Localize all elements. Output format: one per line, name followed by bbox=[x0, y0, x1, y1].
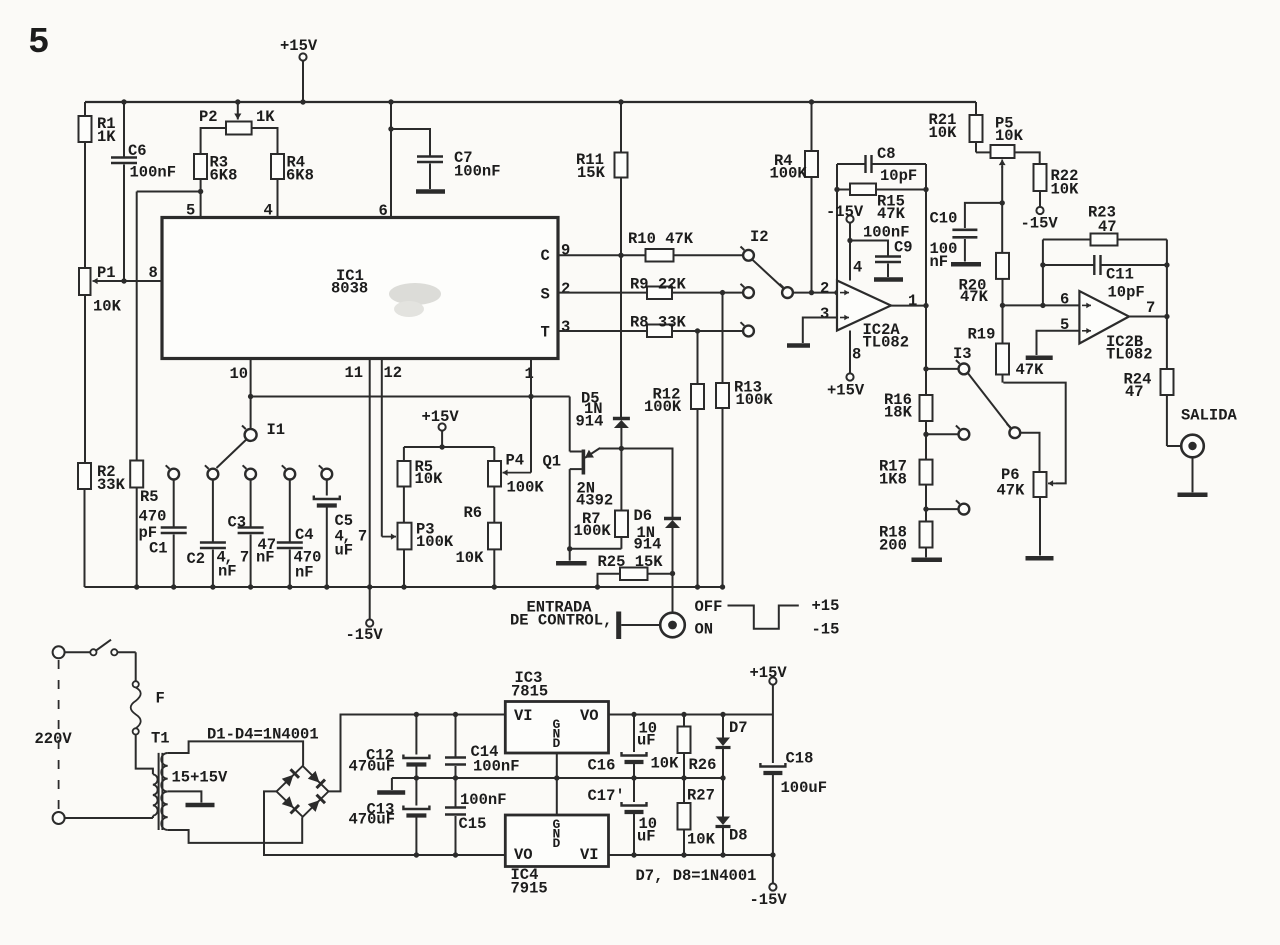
junction C12 bottom bbox=[414, 775, 419, 780]
pin label 6 IC2B bbox=[1060, 291, 1069, 309]
resistor R10 bbox=[646, 249, 674, 262]
wire zero rail bbox=[392, 777, 723, 779]
bridge diode D3 bbox=[282, 796, 299, 813]
svg-text:914: 914 bbox=[576, 413, 604, 431]
wire pin2 row bbox=[558, 292, 647, 294]
svg-text:C17': C17' bbox=[588, 787, 625, 805]
transformer T1 secondary bbox=[161, 753, 167, 830]
+15V terminal PSU bbox=[769, 677, 776, 714]
junction Q1 drain node bbox=[619, 446, 624, 451]
resistor R8 bbox=[647, 325, 672, 338]
svg-text:C11: C11 bbox=[1106, 266, 1134, 284]
svg-text:-15: -15 bbox=[812, 621, 840, 639]
pin label 7 IC2B bbox=[1146, 299, 1155, 317]
junction R27 bottom bbox=[681, 852, 686, 857]
resistor R3 bbox=[194, 154, 207, 217]
svg-text:I2: I2 bbox=[750, 228, 769, 246]
switch I1 contact 4 bbox=[282, 465, 295, 479]
svg-text:47: 47 bbox=[1098, 218, 1117, 236]
junction C10 tap bbox=[1000, 200, 1005, 205]
svg-text:F: F bbox=[156, 690, 165, 708]
svg-text:470uF: 470uF bbox=[349, 758, 396, 776]
wire center tap bbox=[168, 791, 202, 802]
wire secondary bottom bbox=[168, 817, 303, 843]
label R1 1K bbox=[97, 115, 116, 146]
svg-text:D: D bbox=[553, 836, 561, 851]
diode D5 bbox=[613, 418, 630, 449]
op-amp IC2B bbox=[1079, 291, 1129, 344]
IC IC1 8038 box bbox=[162, 218, 558, 359]
wire IC4 gnd bbox=[556, 778, 558, 815]
svg-text:nF: nF bbox=[295, 564, 314, 582]
junction C14 top bbox=[453, 712, 458, 717]
svg-text:C2: C2 bbox=[187, 550, 206, 568]
svg-text:1K: 1K bbox=[97, 128, 116, 146]
wire mains bottom bbox=[65, 816, 153, 818]
resistor R4 timing bbox=[271, 154, 284, 217]
wire IC2B output bbox=[1129, 316, 1167, 318]
svg-text:I1: I1 bbox=[267, 421, 286, 439]
junction C16 bottom bbox=[631, 775, 636, 780]
wire drain to D6 bbox=[621, 449, 672, 518]
junction fb2 left C11 bbox=[1040, 262, 1045, 267]
label D8 bbox=[729, 827, 748, 845]
label C6 100nF bbox=[128, 142, 176, 182]
resistor R26 bbox=[678, 715, 691, 779]
input connector ENTRADA bbox=[619, 612, 685, 640]
label SALIDA bbox=[1181, 407, 1238, 425]
resistor R7 bbox=[615, 449, 628, 549]
diode D8 bbox=[716, 778, 731, 855]
capacitor C7 bbox=[391, 129, 443, 189]
svg-text:100K: 100K bbox=[574, 522, 612, 540]
resistor R9 bbox=[647, 287, 672, 300]
label ENTRADA DE CONTROL bbox=[510, 599, 612, 630]
wire P4 wiper drop bbox=[503, 397, 532, 476]
svg-text:11: 11 bbox=[345, 364, 364, 382]
label VI IC3 bbox=[514, 707, 533, 725]
svg-text:100K: 100K bbox=[507, 479, 545, 497]
junction P2 wiper on bus bbox=[235, 99, 240, 104]
junction rail C4 bbox=[287, 584, 292, 589]
transistor Q1 bbox=[570, 397, 622, 549]
ground C10 bbox=[951, 262, 981, 267]
capacitor C5 bbox=[314, 480, 340, 588]
capacitor C8 bbox=[837, 155, 926, 173]
label GND IC4 bbox=[553, 817, 561, 851]
resistor R16 bbox=[920, 395, 933, 434]
junction fb left pin2 bbox=[834, 290, 839, 295]
junction fb2 right C11 bbox=[1164, 262, 1169, 267]
label VO IC4 bbox=[514, 846, 533, 864]
junction R4b on bus bbox=[809, 99, 814, 104]
label R20 47K bbox=[959, 277, 989, 307]
switch I3 contact bottom bbox=[956, 500, 969, 514]
junction C13 bottom bbox=[414, 852, 419, 857]
label -15V PSU bbox=[750, 891, 788, 909]
svg-text:R6: R6 bbox=[464, 504, 483, 522]
label R9 22K bbox=[630, 276, 687, 294]
label Q1 2N4392 bbox=[543, 453, 614, 510]
ground R18 bbox=[911, 558, 942, 563]
svg-text:R5: R5 bbox=[140, 488, 159, 506]
capacitor C4 bbox=[277, 480, 303, 588]
capacitor C17 bbox=[622, 778, 647, 855]
pin label 5 bbox=[186, 202, 195, 220]
resistor R15 bbox=[837, 184, 926, 196]
ground C9 bbox=[874, 277, 903, 282]
resistor R5 10K bbox=[398, 447, 411, 523]
svg-text:nF: nF bbox=[256, 549, 275, 567]
svg-text:100K: 100K bbox=[770, 165, 808, 183]
junction C6 on bus bbox=[121, 99, 126, 104]
label R16 18K bbox=[884, 391, 913, 422]
resistor R6 bbox=[488, 523, 501, 587]
label R18 200 bbox=[879, 524, 907, 555]
label C12 470uF bbox=[349, 747, 396, 776]
resistor R19 bbox=[996, 344, 1009, 383]
junction C12 top bbox=[414, 712, 419, 717]
ground IC2B pin5 bbox=[1026, 356, 1053, 361]
svg-text:C9: C9 bbox=[894, 239, 913, 257]
svg-text:S: S bbox=[541, 286, 550, 304]
svg-text:VO: VO bbox=[580, 707, 599, 725]
junction rail C1 bbox=[171, 584, 176, 589]
svg-text:10K: 10K bbox=[415, 470, 444, 488]
svg-text:5: 5 bbox=[28, 22, 50, 63]
svg-text:OFF: OFF bbox=[695, 598, 723, 616]
junction rail R12 bbox=[695, 584, 700, 589]
label C4 470nF bbox=[294, 526, 322, 582]
svg-text:+15: +15 bbox=[812, 597, 840, 615]
junction R26 bottom bbox=[681, 775, 686, 780]
junction rail R6 bbox=[492, 584, 497, 589]
junction R26 top bbox=[681, 712, 686, 717]
svg-text:470uF: 470uF bbox=[349, 811, 396, 829]
fuse F bbox=[131, 681, 153, 774]
mains switch bbox=[65, 640, 136, 682]
svg-text:47K: 47K bbox=[960, 288, 989, 306]
label D7 D8 1N4001 bbox=[636, 867, 757, 885]
wire SALIDA to ground bbox=[1192, 457, 1194, 492]
svg-text:6: 6 bbox=[1060, 291, 1069, 309]
svg-text:47K: 47K bbox=[1016, 361, 1045, 379]
svg-text:100nF: 100nF bbox=[473, 758, 520, 776]
-15V terminal R22 bbox=[1036, 207, 1043, 214]
svg-text:4392: 4392 bbox=[576, 492, 613, 510]
junction output pin7 bbox=[1164, 314, 1169, 319]
resistor R11 bbox=[615, 102, 628, 418]
svg-text:10K: 10K bbox=[995, 127, 1024, 145]
svg-text:R19: R19 bbox=[968, 326, 996, 344]
svg-text:C3: C3 bbox=[228, 514, 247, 532]
pin label T bbox=[541, 324, 550, 342]
svg-text:TL082: TL082 bbox=[1106, 346, 1153, 364]
wire R10 to contact bbox=[674, 254, 744, 256]
svg-text:-15V: -15V bbox=[346, 626, 384, 644]
label R3 6K8 bbox=[210, 154, 238, 185]
label R22 10K bbox=[1051, 167, 1080, 199]
svg-text:VI: VI bbox=[514, 707, 533, 725]
bridge diode D2 bbox=[308, 771, 325, 788]
potentiometer P4 bbox=[488, 447, 501, 523]
capacitor C15 bbox=[445, 778, 466, 855]
wire to I3 contact bbox=[926, 368, 959, 370]
+15V terminal top bbox=[299, 53, 306, 102]
label OFF bbox=[695, 598, 723, 616]
svg-text:C10: C10 bbox=[930, 210, 958, 228]
svg-text:C1: C1 bbox=[149, 540, 168, 558]
pin label C bbox=[541, 247, 550, 265]
label R8 33K bbox=[630, 314, 687, 332]
svg-text:-15V: -15V bbox=[1021, 215, 1059, 233]
junction pin5 node bbox=[198, 189, 203, 194]
potentiometer P5 bbox=[991, 145, 1040, 253]
resistor R12 bbox=[691, 331, 704, 587]
svg-text:9: 9 bbox=[561, 242, 570, 260]
pin label 4 bbox=[264, 202, 273, 220]
label 220V bbox=[35, 730, 73, 748]
wire pin8 +15V bbox=[849, 331, 851, 374]
svg-text:1K8: 1K8 bbox=[879, 471, 907, 489]
capacitor C13 bbox=[403, 778, 429, 855]
capacitor C14 bbox=[445, 715, 466, 779]
ground IC2A pin3 bbox=[787, 343, 810, 348]
label C2 4.7nF bbox=[187, 549, 249, 581]
wire 220V dashed bbox=[58, 660, 60, 810]
switch I1 contact 2 bbox=[205, 465, 218, 479]
svg-text:nF: nF bbox=[930, 253, 949, 271]
label C3 47nF bbox=[228, 514, 277, 567]
label C11 10pF bbox=[1106, 266, 1145, 302]
waveform OFF ON bbox=[728, 606, 799, 629]
label I2 bbox=[750, 228, 769, 246]
switch I2 contact bottom bbox=[741, 322, 754, 336]
label +15V P3P4 bbox=[422, 408, 460, 426]
junction I3 tap bbox=[923, 366, 928, 371]
svg-text:nF: nF bbox=[218, 563, 237, 581]
label R6 10K bbox=[456, 504, 485, 567]
svg-text:10K: 10K bbox=[93, 298, 122, 316]
label R4 100K bbox=[770, 152, 808, 183]
wire bridge minus bbox=[264, 791, 505, 855]
junction rail pin11 bbox=[367, 584, 372, 589]
capacitor C2 bbox=[200, 480, 226, 588]
svg-text:VO: VO bbox=[514, 846, 533, 864]
label R12 100K bbox=[644, 386, 682, 417]
svg-text:100nF: 100nF bbox=[130, 164, 177, 182]
svg-text:TL082: TL082 bbox=[863, 334, 910, 352]
label R5 10K bbox=[415, 458, 444, 488]
junction +15V on bus bbox=[300, 99, 305, 104]
junction output pin1 bbox=[923, 303, 928, 308]
label R25 15K bbox=[598, 553, 664, 571]
wire R8 to contact bbox=[672, 330, 743, 332]
svg-text:100K: 100K bbox=[736, 391, 774, 409]
svg-text:8038: 8038 bbox=[331, 280, 368, 298]
svg-text:10K: 10K bbox=[687, 831, 716, 849]
svg-text:R10 47K: R10 47K bbox=[628, 230, 694, 248]
pin label 6 bbox=[379, 202, 388, 220]
resistor R24 bbox=[1161, 317, 1174, 447]
svg-text:D6: D6 bbox=[634, 507, 653, 525]
junction R16 R17 bbox=[923, 432, 928, 437]
label +15V IC2A bbox=[827, 382, 865, 400]
junction R11 line pin9 bbox=[618, 253, 623, 258]
capacitor C18 bbox=[760, 715, 785, 856]
svg-text:15K: 15K bbox=[577, 164, 606, 182]
junction C14 bottom bbox=[453, 775, 458, 780]
svg-text:10K: 10K bbox=[651, 755, 680, 773]
resistor R25 bbox=[598, 568, 673, 588]
resistor R18 bbox=[920, 509, 933, 557]
label 15+15V bbox=[172, 769, 229, 787]
label R23 47 bbox=[1088, 204, 1117, 237]
ground P6 bbox=[1026, 556, 1054, 561]
svg-text:18K: 18K bbox=[884, 404, 913, 422]
wire plus rail right bbox=[609, 714, 773, 716]
label C16 bbox=[588, 720, 658, 775]
svg-text:47K: 47K bbox=[877, 205, 906, 223]
wire IC3 gnd bbox=[556, 753, 558, 778]
label -15V mid bbox=[346, 626, 384, 644]
label ON bbox=[695, 621, 714, 639]
label R13 100K bbox=[734, 379, 773, 410]
junction pin6 node bbox=[1000, 303, 1005, 308]
svg-text:T: T bbox=[541, 324, 550, 342]
wire pin10 row bbox=[251, 396, 570, 398]
junction pin6 wire on bus bbox=[388, 99, 393, 104]
bridge diode D4 bbox=[308, 795, 325, 812]
potentiometer P1 bbox=[79, 268, 162, 463]
junction C16 top bbox=[631, 712, 636, 717]
wire +15V row bbox=[404, 446, 494, 448]
ground Q1 bbox=[556, 549, 587, 563]
wire pin5 to ground bbox=[1037, 331, 1080, 355]
label P2 1K bbox=[199, 108, 275, 126]
label F bbox=[156, 690, 165, 708]
label C13 470uF bbox=[349, 801, 396, 829]
junction R11 on bus bbox=[618, 99, 623, 104]
svg-text:1K: 1K bbox=[256, 108, 275, 126]
svg-text:7815: 7815 bbox=[511, 683, 548, 701]
svg-text:R25 15K: R25 15K bbox=[598, 553, 664, 571]
wire secondary top bbox=[168, 741, 303, 765]
pin label 11 bbox=[345, 364, 364, 382]
label IC3 7815 bbox=[511, 669, 548, 701]
junction D8 bottom bbox=[720, 852, 725, 857]
label D6 1N914 bbox=[634, 507, 662, 554]
resistor R22 bbox=[1034, 164, 1047, 207]
svg-text:C16: C16 bbox=[588, 757, 616, 775]
capacitor C9 bbox=[850, 241, 901, 278]
svg-text:VI: VI bbox=[580, 846, 599, 864]
svg-text:6: 6 bbox=[379, 202, 388, 220]
svg-text:DE CONTROL,: DE CONTROL, bbox=[510, 612, 612, 630]
label R11 15K bbox=[576, 151, 606, 182]
figure number 5 bbox=[28, 22, 50, 63]
junction R25 D6 bbox=[670, 571, 675, 576]
wire pin12 vertical bbox=[381, 359, 383, 537]
capacitor C1 bbox=[161, 480, 187, 588]
svg-text:-15V: -15V bbox=[826, 203, 864, 221]
svg-text:-15V: -15V bbox=[750, 891, 788, 909]
svg-text:Q1: Q1 bbox=[543, 453, 562, 471]
potentiometer P6 bbox=[1003, 383, 1065, 556]
resistor R2 bbox=[78, 463, 91, 587]
junction rail P3 bbox=[401, 584, 406, 589]
svg-text:+15V: +15V bbox=[422, 408, 460, 426]
junction C6 to pin8 wire bbox=[121, 278, 126, 283]
label -15V IC2A bbox=[826, 203, 864, 221]
svg-text:8: 8 bbox=[852, 346, 861, 364]
wire pin1 vertical bbox=[530, 359, 532, 397]
svg-text:200: 200 bbox=[879, 537, 907, 555]
label T1 bbox=[151, 730, 170, 748]
svg-text:SALIDA: SALIDA bbox=[1181, 407, 1238, 425]
bridge rectifier D1-D4 outline bbox=[277, 766, 329, 817]
op-amp IC2A bbox=[837, 281, 891, 331]
resistor R1 bbox=[79, 102, 92, 268]
-15V terminal IC2A bbox=[846, 215, 853, 222]
top +15V supply bus wire bbox=[85, 101, 976, 103]
junction C17 bottom bbox=[631, 852, 636, 857]
IC IC4 7915 box bbox=[505, 815, 608, 867]
svg-text:P4: P4 bbox=[506, 452, 525, 470]
svg-text:D1-D4=1N4001: D1-D4=1N4001 bbox=[207, 726, 319, 744]
label R24 47 bbox=[1124, 371, 1152, 402]
switch I3 contact top bbox=[956, 360, 969, 374]
label C10 100nF bbox=[930, 210, 958, 272]
junction C15 bottom bbox=[453, 852, 458, 857]
resistor R27 bbox=[678, 778, 691, 855]
label R7 100K bbox=[574, 510, 612, 540]
svg-text:C8: C8 bbox=[877, 145, 896, 163]
pin label 3 bbox=[561, 318, 570, 336]
resistor R17 bbox=[920, 434, 933, 509]
svg-text:+15V: +15V bbox=[750, 664, 788, 682]
label D1-D4 1N4001 bbox=[207, 726, 319, 744]
wire R7 bottom bbox=[570, 548, 622, 550]
pin label 12 bbox=[384, 364, 403, 382]
svg-text:8: 8 bbox=[149, 264, 158, 282]
wire -15V rail bbox=[85, 586, 723, 588]
junction pin10 node bbox=[248, 394, 253, 399]
switch I1 contact 3 bbox=[243, 465, 256, 479]
junction rail C5 bbox=[324, 584, 329, 589]
junction C9 tap bbox=[847, 238, 852, 243]
svg-text:5: 5 bbox=[186, 202, 195, 220]
wire minus rail right bbox=[609, 854, 773, 856]
svg-text:ON: ON bbox=[695, 621, 714, 639]
pin label 4 IC2A bbox=[853, 259, 862, 277]
svg-text:7: 7 bbox=[1146, 299, 1155, 317]
svg-text:4: 4 bbox=[264, 202, 273, 220]
switch I3 arm and common bbox=[968, 373, 1020, 438]
pin label S bbox=[541, 286, 550, 304]
pin label 10 bbox=[230, 365, 249, 383]
wire pin12 to P3 wiper bbox=[382, 534, 396, 540]
pin label 5 IC2B bbox=[1060, 316, 1069, 334]
junction C18 bottom bbox=[770, 852, 775, 857]
switch I2 arm and common bbox=[753, 260, 793, 298]
junction R17 R18 bbox=[923, 506, 928, 511]
ground center tap bbox=[186, 803, 215, 808]
svg-text:914: 914 bbox=[634, 536, 662, 554]
wire fb2 right vertical bbox=[1166, 240, 1168, 317]
svg-text:12: 12 bbox=[384, 364, 403, 382]
label -15V R22 bbox=[1021, 215, 1059, 233]
